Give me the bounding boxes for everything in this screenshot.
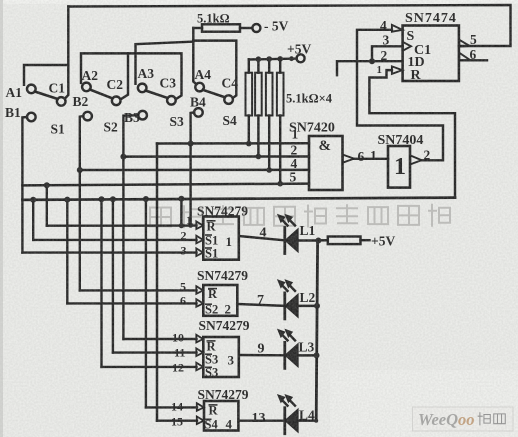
junction RN3 bottom on pin4 row (266, 167, 272, 173)
wire latch3 output pin9 to L3 (239, 354, 284, 357)
junction B4 line end on latch1 pin1 wire (188, 223, 193, 228)
junction bus to latch2 pin6 (64, 197, 70, 203)
node L3 anode (314, 352, 320, 358)
wire B1 down to latch1 pin3 (22, 117, 27, 253)
contact C2 (112, 97, 121, 106)
wire drop bus node to latch3 pin12 (100, 199, 102, 367)
wire top feedback rail from SN7474 pin5 to switches (68, 5, 510, 46)
LED L3 (283, 342, 286, 368)
wire latch1 pin2 (33, 239, 196, 241)
contact C1 (57, 97, 66, 106)
contact A4 (195, 83, 204, 92)
wire latch2 output pin7 to L2 (237, 304, 284, 306)
switch S2 blade A2-C2 (90, 90, 113, 99)
junction B4 on pin1 row (188, 141, 194, 147)
wire 7420 pin1 row from B4 (157, 142, 309, 145)
junction RN2 bottom on pin2 row (256, 154, 262, 160)
junction on +5V bus near terminal (289, 56, 294, 61)
wire U1 pin6 stub (459, 59, 487, 61)
wire latch3 pin11 (113, 351, 197, 353)
U3 output polarity wedge (410, 155, 421, 164)
wire 7420 pin2 row from B3 (123, 155, 309, 158)
wire reset bus (22, 198, 455, 200)
junction RN3 top on +5V bus (266, 56, 272, 62)
contact B2 (83, 112, 92, 121)
switch S1 blade A1-C1 (35, 92, 58, 100)
LED L1 (283, 228, 286, 254)
wire latch1 output pin4 to L1 (239, 236, 285, 240)
contact A3 (138, 84, 147, 93)
wire U1 pin1 R loop to reset bus (369, 70, 455, 198)
wire U1 pin2 1D line with stub (337, 61, 403, 75)
IC U1 SN7474 box (403, 26, 459, 82)
node L1 anode (315, 238, 321, 244)
junction on pin5 row to latch1 pin1 (44, 182, 50, 188)
wire latch2 pin5 (80, 289, 197, 291)
junction bus to latch3 pin12 (99, 196, 105, 202)
wire drop bus node to latch1 pin2 (32, 200, 34, 240)
contact B3 (138, 111, 147, 120)
junction bus to latch1 pin2 (30, 197, 36, 203)
latch U5 SN74279 box 2 (203, 285, 237, 316)
contact B4 (194, 108, 203, 117)
wire drop row5 node to latch1 pin1 (46, 185, 48, 226)
watermark 杭州将睿科技有限公司 (pseudo-glyphs, under ink) (150, 205, 450, 228)
junction RN4 bottom on pin5 row (277, 181, 283, 187)
resistor RN3 (268, 59, 270, 170)
wire 7420 pin5 row from B1 (22, 184, 309, 186)
junction bus drop to latch1 pin1 wire (178, 196, 184, 202)
resistor network +5V bus (249, 57, 297, 60)
wire rail drop to S1 bracket and C1 (65, 7, 69, 99)
wire B4 down to node on 7420 pin1 row (191, 112, 195, 225)
contact A1 (27, 85, 36, 94)
node L4 anode (314, 419, 318, 423)
wire latch4 output pin13 to L4 (238, 419, 283, 421)
LED L4 (283, 408, 286, 434)
junction bus to latch3 pin11 (110, 196, 116, 202)
contact C3 (167, 96, 176, 105)
contact B1 (27, 113, 36, 122)
junction on U1 1D line (369, 58, 375, 64)
junction RN1 bottom on pin1 row (246, 141, 252, 147)
U6 input wedges pins 10,11,12 (196, 335, 203, 343)
U1 pin4 S wedge (392, 25, 402, 32)
junction B2 on pin4 row (77, 167, 83, 173)
wire latch3 pin10 (123, 338, 196, 340)
LED L2 (283, 293, 286, 319)
resistor RN1 (248, 59, 250, 143)
switch S1 bracket wire (24, 65, 68, 85)
logo 维库 pseudo-glyphs (478, 413, 505, 425)
wire latch1 pin1 (47, 224, 197, 226)
wire latch2 pin6 (67, 302, 196, 304)
switch S4 blade A4-C4 (203, 90, 225, 97)
wire latch1 pin3 (22, 251, 196, 253)
contact A2 (82, 83, 91, 92)
wire B2 down to latch2 pin5 (80, 116, 83, 290)
U4 input wedges pins 1,2,3 (196, 221, 203, 229)
latch U7 SN74279 box 4 (204, 401, 238, 431)
wire drop bus node to latch4 pin14 (145, 199, 147, 407)
switch S2 bracket wire (81, 53, 128, 98)
resistor R1 5.1k top (193, 27, 202, 29)
junction B3 on pin2 row (120, 154, 126, 160)
junction RN2 top on +5V bus (256, 56, 262, 62)
U1 pin5 output wedge (459, 40, 470, 47)
U1 clock triangle at C1 (403, 42, 411, 51)
wire drop bus node to latch2 pin6 (66, 200, 68, 304)
U2 output polarity wedge (343, 155, 354, 163)
terminal -5V (252, 24, 260, 32)
junction bus to latch4 pin14 (143, 196, 149, 202)
IC U2 SN7420 box (309, 136, 343, 190)
terminal +5V (297, 54, 305, 62)
contact C4 (224, 95, 233, 104)
resistor RN4 (279, 59, 281, 184)
latch U4 SN74279 box 1 (203, 217, 239, 260)
wire U2 pin6 to U3 pin1 (354, 158, 388, 160)
U1 pin1 R wedge (392, 66, 402, 74)
U5 input wedges pins 5,6 (196, 286, 203, 294)
wire latch4 pin15 (157, 420, 197, 422)
wire LED anode bus (316, 241, 317, 421)
wire U1 pin3 to node on 1D line (372, 46, 403, 61)
wire 7420 pin4 row from B2 (80, 169, 309, 172)
IC U3 SN7404 box (388, 146, 410, 188)
WeeQoo logo box (413, 407, 514, 431)
wire S2 bracket extension down to C3 (128, 53, 182, 98)
switch S3 blade A3-C3 (146, 91, 168, 98)
junction on latch1 pin1 wire (179, 223, 184, 228)
wire drop bus node to latch1 pin1 wire (180, 199, 182, 226)
switch S3 bracket wire (136, 42, 194, 84)
junction RN4 top on +5V bus (277, 56, 283, 62)
switch S4 bracket wire (193, 41, 236, 98)
resistor RN2 (257, 59, 259, 156)
U7 input wedges pins 14,15 (197, 403, 204, 411)
overbars on latch port names (205, 221, 218, 419)
wire pin1 row drop to latch4 pin15 (156, 144, 159, 421)
wire B3 down to latch3 pin10 (123, 115, 138, 339)
wire U3 pin2 loop to U1 pin4 (357, 30, 443, 161)
node L2 anode (314, 303, 320, 309)
wire resistor feed down through S4 bracket to A4 (193, 28, 196, 84)
wire latch3 pin12 (102, 366, 197, 368)
wire latch4 pin14 (146, 406, 197, 408)
U1 pin6 output wedge (459, 53, 470, 61)
latch U6 SN74279 box 3 (203, 337, 239, 377)
resistor R5 to +5V (318, 239, 327, 242)
wire drop bus node to latch3 pin11 (112, 199, 114, 352)
